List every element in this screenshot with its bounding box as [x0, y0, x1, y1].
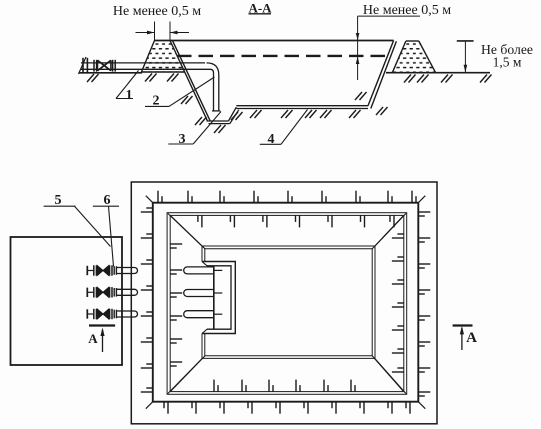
vegetation ticks left crest edge: [141, 208, 153, 392]
valve assembly row 1 (y=270.5): [87, 265, 137, 275]
pipe elbow and vertical drop pipe 2: [207, 63, 219, 111]
svg-text:А: А: [466, 330, 477, 346]
ground line right of basin: [386, 72, 490, 74]
title A-A: [248, 1, 272, 16]
label: Не менее 0,5 м (left): [113, 4, 201, 19]
label 6 with leader: [93, 205, 119, 207]
slope corner diagonals (double): [168, 213, 203, 246]
section arrow A (bottom, near building): [89, 324, 115, 326]
svg-text:5: 5: [55, 193, 62, 208]
svg-text:4: 4: [268, 132, 275, 147]
pump house building 5: [11, 237, 123, 365]
basin left slope (double line): [170, 41, 207, 121]
basin bottom edge (double rectangle): [202, 246, 375, 358]
valve assembly on inlet pipe: [82, 58, 84, 74]
label: Не менее 0,5 м (right): [363, 3, 451, 18]
crest corner mitre diagonals: [146, 196, 153, 203]
slope ticks inside basin, bottom edge: [214, 380, 355, 392]
label 5 with leader: [44, 205, 76, 207]
right embankment (dotted fill): [392, 41, 435, 73]
basin top edge (double rectangle): [167, 213, 407, 395]
svg-text:6: 6: [104, 193, 111, 208]
slope ticks inside basin, left edge: [170, 244, 182, 366]
valve assembly row 3 (y=314): [87, 309, 137, 319]
vegetation ticks bottom crest edge: [164, 402, 410, 414]
dimension arrows 0,5 м left: [136, 32, 155, 34]
vegetation ticks right crest edge: [418, 212, 430, 396]
discharge pipe row 2 into well: [184, 290, 223, 297]
section arrow A (right side): [453, 324, 473, 326]
ground line left of basin: [79, 72, 142, 74]
ground hatch marks, cross-section: [87, 74, 99, 82]
label: Не более 1,5 м: [481, 42, 533, 70]
outer boundary rectangle: [131, 182, 437, 424]
basin right slope (double line): [368, 41, 394, 106]
label 2 with leader: [145, 105, 169, 107]
label 1 with leader: [116, 98, 133, 100]
svg-text:Не менее 0,5 м: Не менее 0,5 м: [113, 4, 201, 19]
basin bottom (double line): [236, 105, 368, 107]
svg-text:1,5 м: 1,5 м: [493, 55, 522, 70]
embankment crest rectangle: [153, 203, 419, 402]
water level dashed line: [177, 55, 388, 57]
valve assembly row 2 (y=292.3): [87, 287, 137, 297]
left embankment (dotted fill): [141, 41, 185, 73]
basin top edge line: [155, 40, 394, 42]
leader for right 0,5 м dimension: [358, 15, 420, 17]
discharge pipe row 1 into well: [184, 267, 223, 274]
dimension 1,5 м (right): [457, 40, 474, 42]
svg-text:1: 1: [126, 88, 133, 103]
slope ticks inside basin, top edge: [198, 215, 394, 227]
label 4 with leader: [260, 143, 281, 145]
slope ticks inside basin, right edge: [392, 234, 404, 372]
drainage pit (lined): [207, 120, 229, 122]
svg-text:2: 2: [153, 94, 160, 109]
gate valve bowtie: [97, 60, 99, 70]
svg-text:А: А: [88, 331, 98, 346]
label 3 with leader: [168, 143, 193, 145]
vegetation ticks top crest edge: [158, 191, 416, 203]
dimension extension lines over left embankment crest: [154, 22, 156, 41]
outlet well structure in basin: [202, 262, 235, 334]
discharge pipe row 3 into well: [184, 311, 223, 318]
svg-text:3: 3: [179, 132, 186, 147]
pipe outlet end cap: [212, 110, 220, 112]
inlet pipe (horizontal): [81, 62, 205, 64]
